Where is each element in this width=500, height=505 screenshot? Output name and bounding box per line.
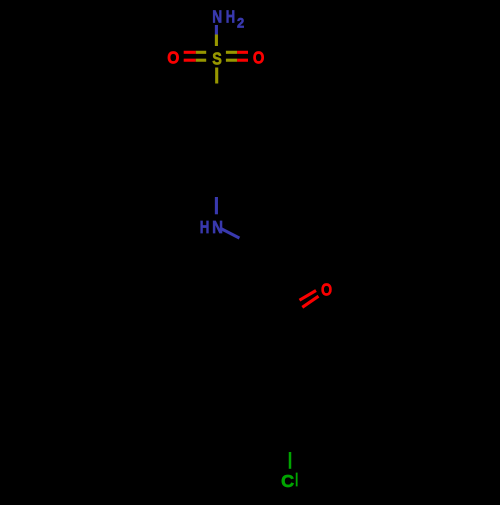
double bond S=O right, upper line, olive half [226,51,237,54]
svg-text:N: N [212,6,222,26]
svg-text:N: N [212,217,223,237]
double bond C=O3, upper line, red half near O [300,291,317,301]
benzene ring 2 (chlorophenyl, carbon black, invisible) [253,353,327,438]
bond C(aryl)-N2, nitrogen-colored lower half [215,197,218,214]
svg-text:O: O [253,47,265,67]
svg-text:2: 2 [237,15,244,31]
svg-text:O: O [321,279,332,299]
bond S-C(aryl), carbon half (invisible) [215,84,218,100]
bond N2-CH2, nitrogen-colored left half [221,229,239,238]
double bond S=O left, lower line, red half [184,59,196,62]
double bond S=O right, lower line, red half [237,59,248,62]
bond C(=O)-C(aryl) (carbon, invisible) [288,310,291,353]
double bond S=O left, upper line, olive half [196,51,206,54]
benzene ring 1 (aminophenyl, carbon black, invisible) [180,100,254,185]
bond S-C(aryl), sulfur-colored upper half [215,68,218,84]
bond C(aryl)-Cl, carbon half (invisible) [289,438,292,452]
bond C(aryl)-N2, carbon half (invisible) [215,185,218,198]
bond N-S lower half (sulfur colored) [215,35,218,47]
svg-text:O: O [167,47,179,67]
bond C(aryl)-Cl, chlorine-colored lower half [289,452,292,469]
svg-text:l: l [295,470,298,490]
double bond S=O right, lower line, olive half [226,59,237,62]
chain bonds CH2-CH2-C=O (carbon, invisible) [240,238,290,310]
double bond S=O left, upper line, red half [184,51,196,54]
svg-text:H: H [200,217,210,237]
svg-text:S: S [212,48,222,68]
double bond S=O right, upper line, red half [237,51,248,54]
double bond S=O left, lower line, olive half [196,59,206,62]
svg-text:H: H [226,6,235,26]
svg-text:C: C [281,471,294,491]
bond N-S upper half (nitrogen colored) [215,25,218,35]
double bond C=O3, lower line, red half near O [302,296,318,307]
